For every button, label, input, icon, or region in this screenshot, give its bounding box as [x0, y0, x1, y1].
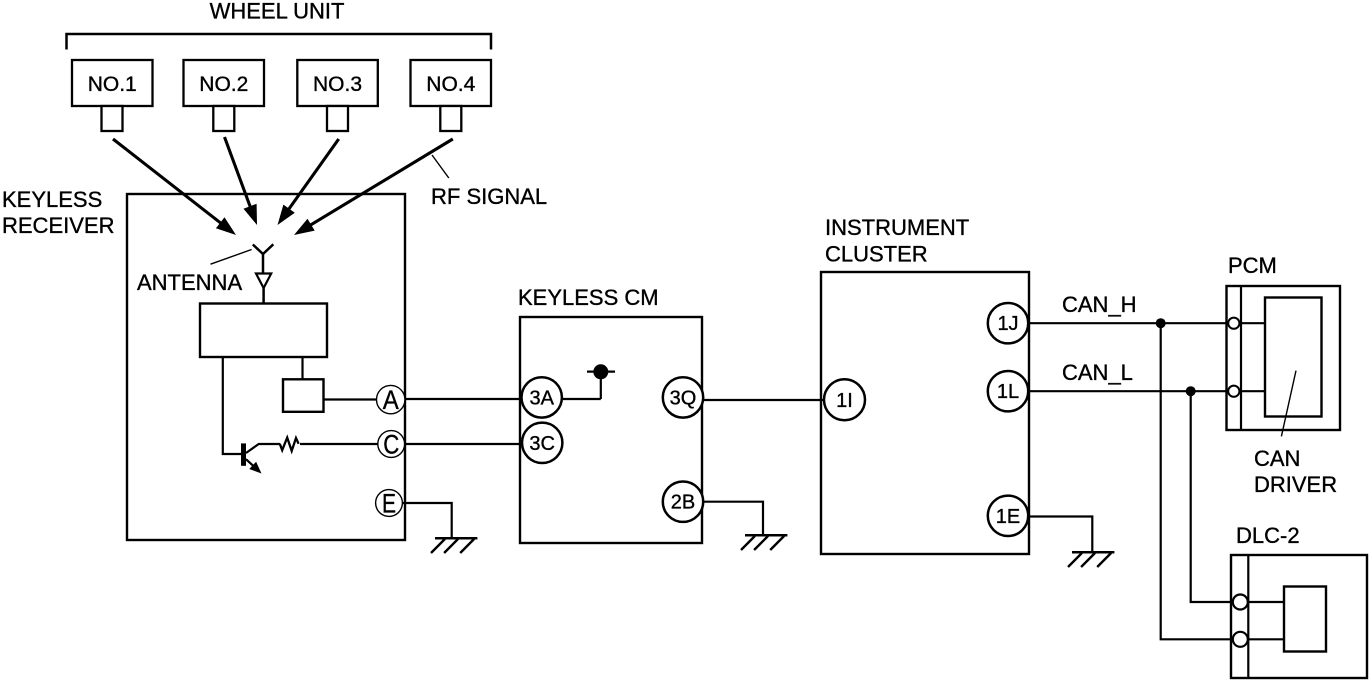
wire pin A to pin 3A	[405, 398, 522, 400]
instrument cluster box	[821, 272, 1029, 554]
wire CAN_H from 1J to PCM	[1029, 322, 1266, 324]
wire from receiver block to output box	[301, 357, 303, 380]
svg-text:E: E	[382, 488, 396, 518]
svg-text:KEYLESS CM: KEYLESS CM	[518, 285, 659, 310]
arrow from NO.1 to antenna	[113, 139, 236, 235]
pin C circle	[378, 429, 405, 459]
svg-text:PCM: PCM	[1228, 253, 1277, 278]
svg-text:3C: 3C	[529, 433, 555, 455]
CAN DRIVER pointer line	[1281, 371, 1296, 437]
DLC-2 pin circle upper	[1233, 595, 1248, 610]
PCM pin circle CAN_L	[1228, 386, 1239, 397]
svg-text:1L: 1L	[997, 381, 1019, 403]
antenna symbol	[253, 244, 273, 304]
svg-text:RF SIGNAL: RF SIGNAL	[431, 184, 547, 209]
svg-text:WHEEL UNIT: WHEEL UNIT	[210, 0, 345, 24]
DLC-2 pin circle lower	[1233, 632, 1248, 647]
resistor (zigzag)	[280, 438, 299, 451]
bracket over wheel units	[67, 34, 492, 50]
wire pin 3A to power stub	[562, 398, 601, 400]
svg-text:NO.1: NO.1	[88, 73, 137, 96]
output small box	[283, 379, 324, 412]
svg-text:C: C	[383, 429, 399, 459]
svg-text:1E: 1E	[996, 506, 1020, 528]
wire pin C to pin 3C	[405, 443, 523, 445]
DLC-2 connector strip line	[1247, 555, 1249, 678]
PCM connector strip line	[1240, 286, 1242, 430]
svg-text:DRIVER: DRIVER	[1254, 472, 1337, 497]
label KEYLESS RECEIVER	[2, 187, 114, 238]
transistor Q1	[241, 443, 280, 473]
junction dot on CAN_H	[1156, 318, 1166, 328]
junction dot on CAN_L	[1186, 386, 1196, 396]
svg-text:CAN_L: CAN_L	[1062, 360, 1133, 385]
keyless receiver box	[127, 194, 405, 540]
arrow from NO.3 to antenna	[278, 139, 339, 225]
svg-text:RECEIVER: RECEIVER	[2, 213, 114, 238]
svg-text:3A: 3A	[529, 387, 554, 409]
svg-text:INSTRUMENT: INSTRUMENT	[825, 215, 969, 240]
svg-text:1J: 1J	[997, 313, 1018, 335]
wire CAN_H branch to DLC-2 lower pin	[1161, 323, 1233, 639]
wheel unit NO.2 box	[184, 60, 265, 131]
svg-text:NO.3: NO.3	[313, 73, 362, 96]
arrow from NO.2 to antenna	[225, 137, 258, 225]
PCM CAN driver rectangle	[1265, 298, 1322, 417]
wire DLC-2 upper pin to inner rectangle	[1240, 601, 1284, 603]
wire CAN_L from 1L to PCM	[1029, 390, 1266, 392]
svg-text:3Q: 3Q	[670, 387, 697, 409]
pin 3Q circle	[663, 377, 703, 417]
label INSTRUMENT CLUSTER	[825, 215, 969, 267]
svg-text:NO.2: NO.2	[199, 73, 248, 96]
svg-text:CAN: CAN	[1254, 446, 1300, 471]
svg-text:CAN_H: CAN_H	[1062, 292, 1137, 317]
label CAN DRIVER	[1254, 446, 1337, 497]
wire resistor to pin C	[300, 443, 379, 445]
pin 2B circle	[663, 482, 703, 522]
wire DLC-2 lower pin to inner rectangle	[1240, 638, 1284, 640]
PCM box	[1227, 286, 1341, 430]
DLC-2 box	[1231, 555, 1367, 678]
DLC-2 inner rectangle	[1284, 587, 1326, 652]
svg-text:1I: 1I	[836, 390, 853, 412]
svg-text:CLUSTER: CLUSTER	[825, 242, 928, 267]
wire output box to pin A	[324, 398, 378, 400]
arrow from NO.4 to antenna (RF signal)	[294, 139, 453, 235]
pin E circle	[376, 488, 403, 518]
svg-text:DLC-2: DLC-2	[1236, 523, 1300, 548]
pin 1J circle	[988, 303, 1028, 343]
wheel unit NO.4 box	[411, 60, 492, 131]
antenna pointer line	[211, 250, 252, 265]
pin A circle	[377, 385, 405, 415]
svg-text:KEYLESS: KEYLESS	[2, 187, 102, 212]
receiver block rectangle	[200, 304, 327, 358]
wire pin 3Q to pin 1I	[703, 399, 823, 401]
svg-text:2B: 2B	[671, 492, 695, 514]
pin 3A circle	[522, 377, 562, 417]
pin 1E circle	[988, 496, 1028, 536]
svg-text:A: A	[383, 385, 399, 415]
wire CAN_L branch to DLC-2 upper pin	[1191, 391, 1233, 602]
wheel unit NO.1 box	[72, 60, 153, 131]
pin 1I circle	[824, 379, 865, 420]
ground symbol (keyless receiver)	[431, 538, 477, 553]
wire pin E to ground	[403, 503, 452, 538]
pin 1L circle	[988, 371, 1028, 411]
ground symbol (instrument cluster)	[1068, 552, 1114, 567]
keyless CM box	[520, 317, 702, 543]
wire from receiver block to transistor base	[223, 357, 242, 454]
svg-text:NO.4: NO.4	[426, 73, 475, 96]
PCM pin circle CAN_H	[1228, 318, 1239, 329]
wire pin 1E to ground	[1029, 517, 1093, 553]
wire pin 2B to ground	[703, 502, 763, 535]
power stub with junction dot inside keyless CM	[587, 364, 615, 399]
pin 3C circle	[522, 423, 562, 463]
svg-text:ANTENNA: ANTENNA	[137, 270, 242, 295]
ground symbol (keyless CM)	[741, 535, 787, 550]
wheel unit NO.3 box	[297, 60, 378, 131]
RF SIGNAL pointer line	[432, 155, 449, 178]
